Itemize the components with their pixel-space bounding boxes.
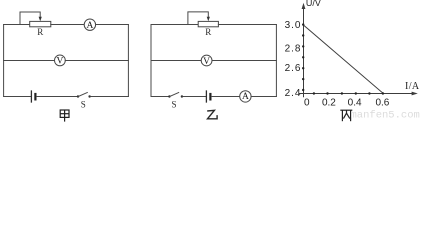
resistor R (rheostat body) bbox=[30, 21, 51, 26]
graph: U-I characteristic line bbox=[304, 25, 383, 93]
wire: switch to battery (circuit yi) bbox=[183, 96, 206, 98]
rheostat wiper arrowhead (circuit yi) bbox=[207, 17, 210, 21]
ammeter A1 circle bbox=[84, 19, 95, 30]
svg-text:S: S bbox=[171, 100, 176, 110]
switch S1 lever bbox=[79, 93, 88, 97]
voltmeter V2 circle bbox=[201, 55, 212, 66]
svg-text:0.4: 0.4 bbox=[348, 97, 362, 108]
wire: battery to switch bbox=[37, 96, 78, 98]
circuit jia: bottom wire left segment bbox=[4, 96, 31, 98]
graph: x-axis bbox=[299, 93, 415, 95]
circuit yi: right edge wire bbox=[275, 25, 277, 97]
svg-text:R: R bbox=[205, 27, 211, 37]
svg-text:R: R bbox=[37, 27, 43, 37]
svg-text:U/V: U/V bbox=[306, 0, 321, 8]
circuit yi: top wire left segment bbox=[151, 24, 198, 26]
wire: switch to bottom-right corner bbox=[91, 96, 129, 98]
svg-text:V: V bbox=[203, 57, 210, 67]
svg-text:0.2: 0.2 bbox=[322, 97, 336, 108]
svg-text:3.0: 3.0 bbox=[285, 20, 302, 31]
wire: box to top-right corner (circuit yi) bbox=[218, 24, 276, 26]
switch S1 right contact dot bbox=[88, 95, 90, 97]
svg-text:0: 0 bbox=[304, 97, 310, 108]
circuit jia: middle wire right of voltmeter bbox=[65, 60, 128, 62]
graph: x-axis tick dots bbox=[313, 92, 384, 94]
svg-text:S: S bbox=[81, 100, 86, 110]
svg-text:2.4: 2.4 bbox=[285, 88, 302, 99]
svg-text:0.6: 0.6 bbox=[375, 97, 389, 108]
svg-text:2.6: 2.6 bbox=[285, 63, 302, 74]
caption yi (Chinese glyph drawn as strokes) bbox=[207, 110, 217, 119]
rheostat wiper loop wire bbox=[20, 12, 40, 25]
circuit jia: right edge wire bbox=[127, 25, 129, 97]
circuit yi: middle wire left of voltmeter bbox=[151, 60, 201, 62]
graph: y-axis arrowhead bbox=[302, 3, 306, 9]
graph: y-axis bbox=[303, 6, 305, 98]
svg-text:I/A: I/A bbox=[405, 81, 420, 92]
circuit yi: middle wire right of voltmeter bbox=[212, 60, 276, 62]
svg-text:A: A bbox=[86, 21, 93, 31]
circuit jia: left edge wire bbox=[3, 25, 5, 97]
svg-text:2.8: 2.8 bbox=[285, 44, 302, 55]
wire: box to ammeter bbox=[51, 24, 84, 26]
switch S2 left contact dot bbox=[168, 95, 170, 97]
battery cell long plate (circuit yi) bbox=[205, 91, 207, 102]
svg-text:V: V bbox=[56, 57, 63, 67]
switch S2 right contact dot bbox=[181, 95, 183, 97]
resistor R (rheostat body, circuit yi) bbox=[198, 21, 218, 26]
battery cell short thick plate (circuit yi) bbox=[209, 94, 211, 99]
rheostat wiper arrowhead bbox=[39, 17, 42, 21]
battery cell short thick plate bbox=[34, 94, 36, 99]
svg-text:manfen5.com: manfen5.com bbox=[351, 110, 420, 122]
rheostat wiper loop wire (circuit yi) bbox=[188, 12, 208, 25]
circuit yi: bottom wire left segment bbox=[151, 96, 169, 98]
svg-text:A: A bbox=[242, 92, 249, 102]
caption jia (Chinese glyph drawn as strokes) bbox=[60, 110, 69, 122]
circuit jia: top wire left segment bbox=[4, 24, 30, 26]
circuit jia: middle wire left of voltmeter bbox=[4, 60, 55, 62]
circuit yi: left edge wire bbox=[150, 25, 152, 97]
switch S1 left contact dot bbox=[77, 95, 79, 97]
wire: ammeter to top-right corner bbox=[96, 24, 129, 26]
graph: x-axis arrowhead bbox=[412, 92, 418, 96]
caption bing (Chinese glyph drawn as strokes) bbox=[340, 110, 352, 121]
graph: y-axis tick dots bbox=[302, 23, 304, 91]
ammeter A2 circle bbox=[240, 91, 251, 102]
voltmeter V1 circle bbox=[55, 55, 66, 66]
wire: battery to ammeter (circuit yi) bbox=[212, 96, 240, 98]
switch S2 lever bbox=[170, 93, 179, 97]
wire: ammeter to bottom-right corner (circuit yi) bbox=[251, 96, 276, 98]
battery cell long plate bbox=[30, 91, 32, 102]
